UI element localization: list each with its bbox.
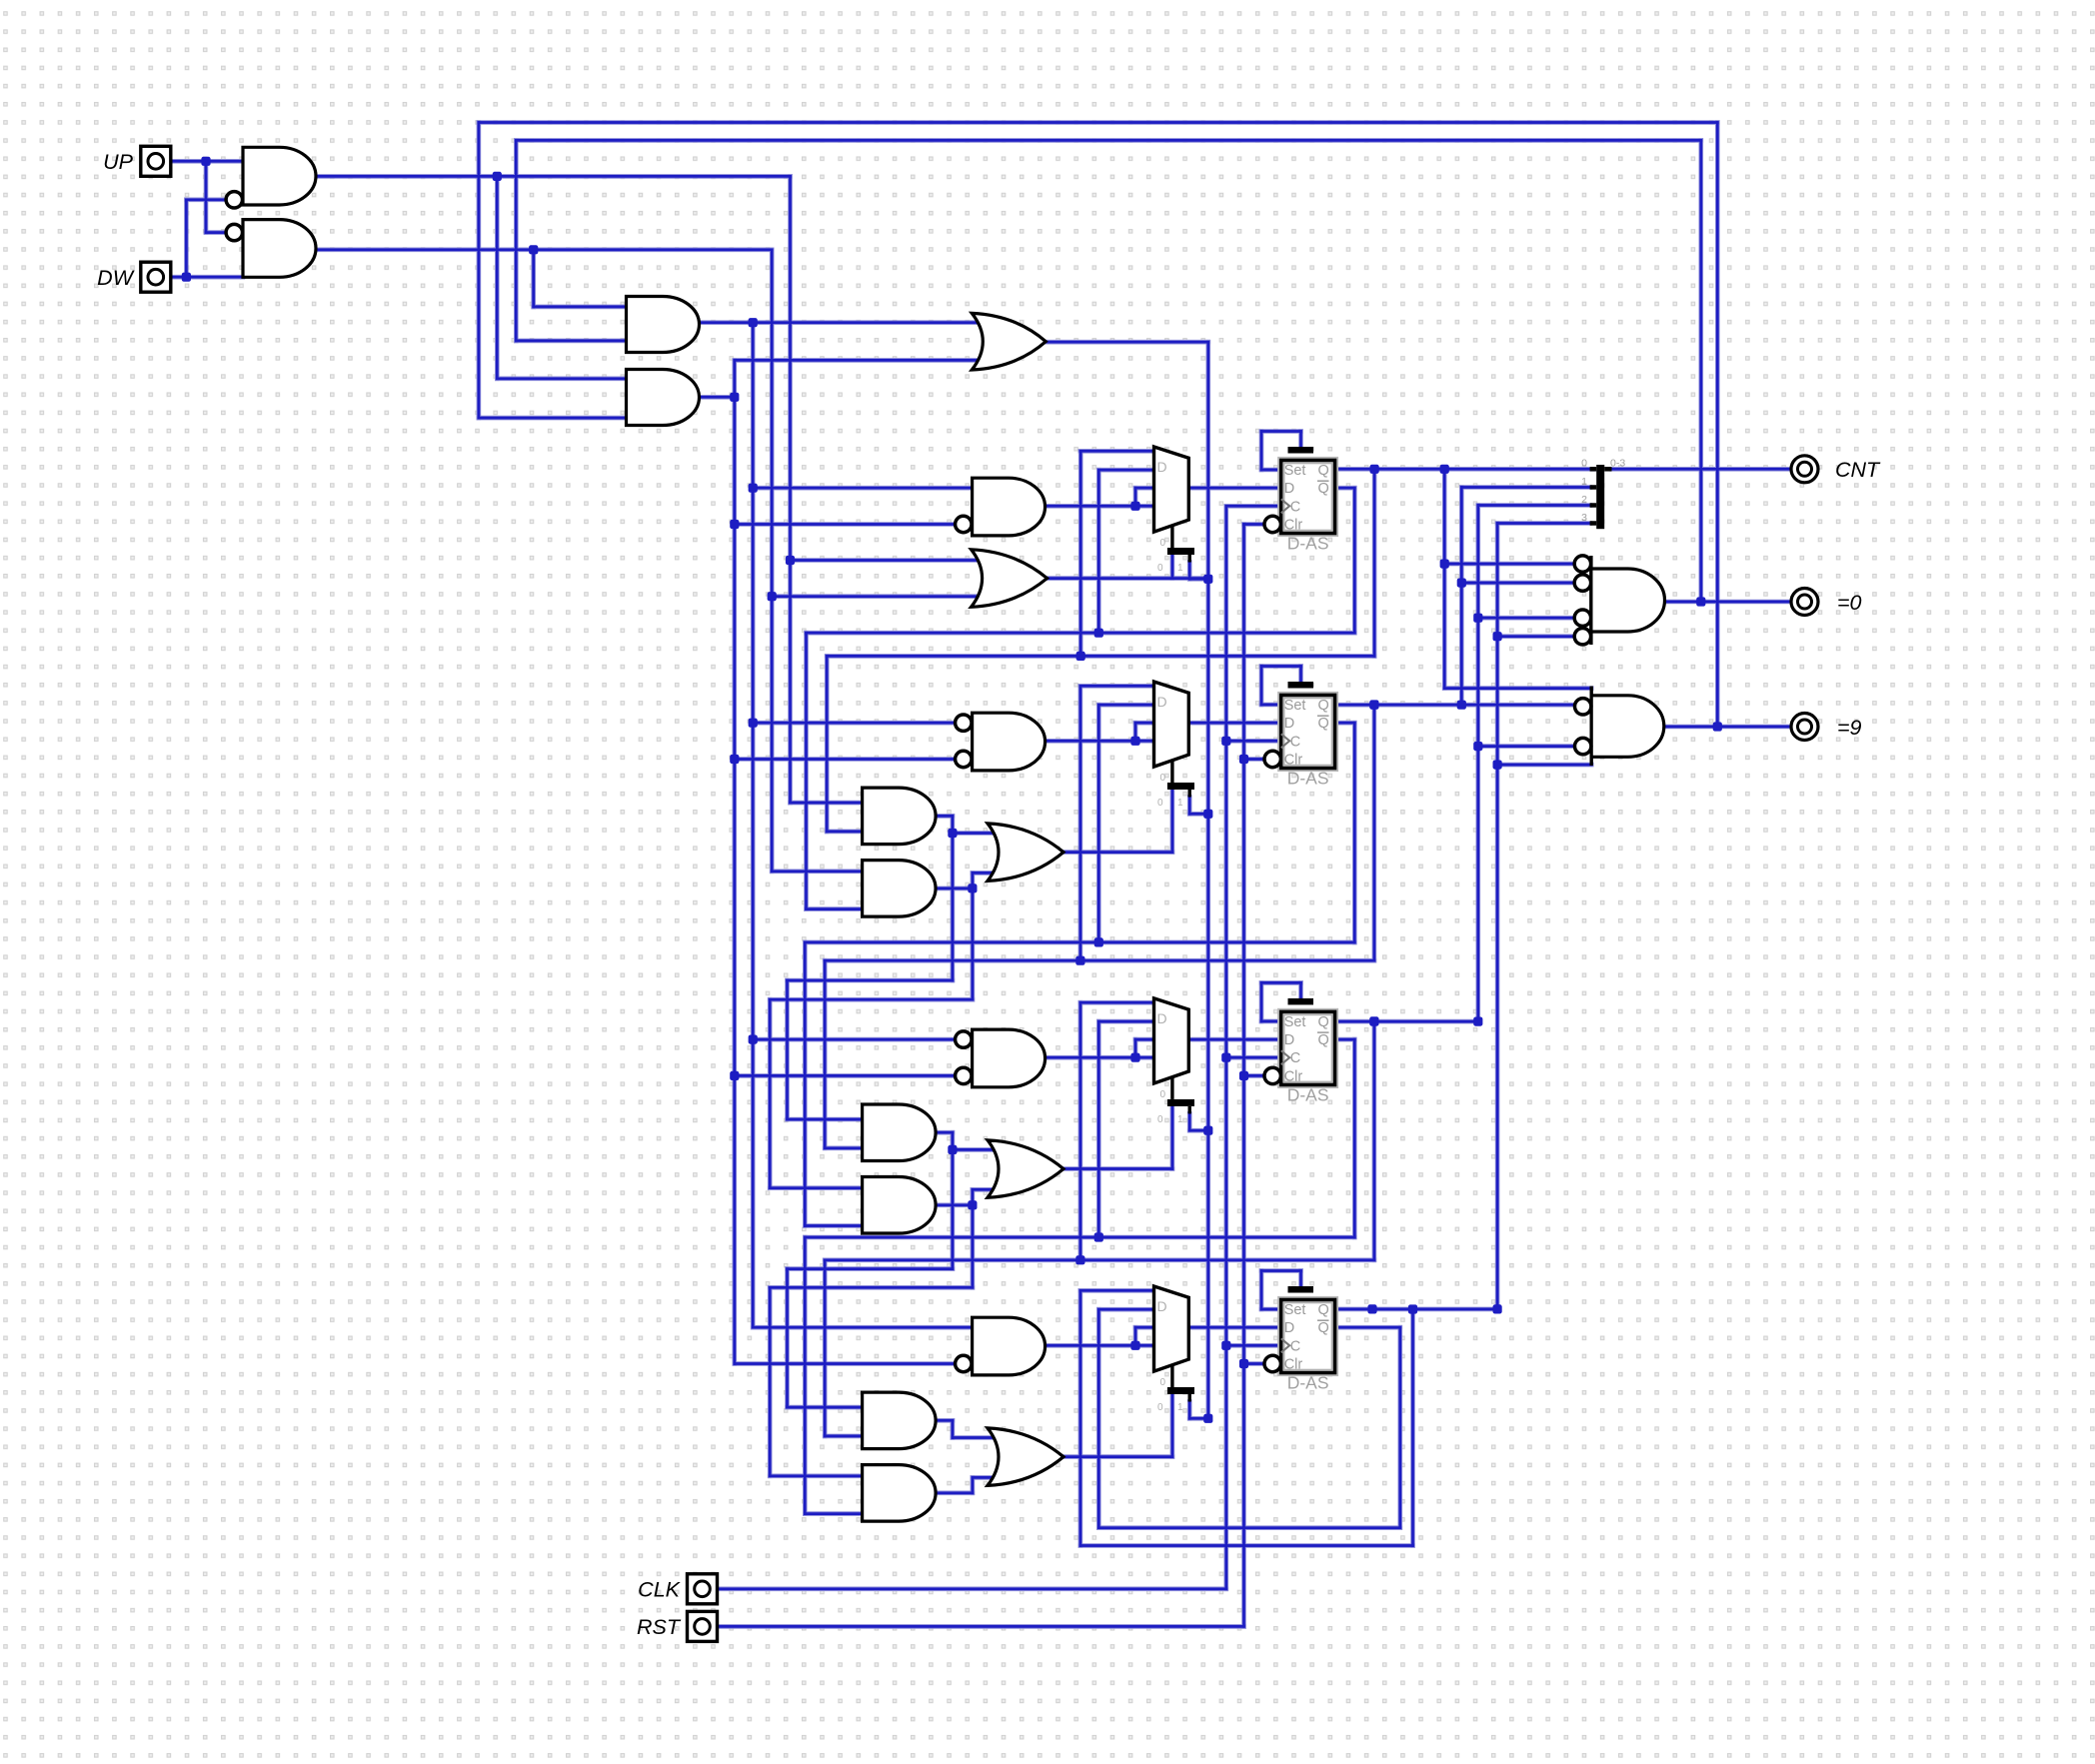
svg-text:Q: Q bbox=[1318, 481, 1329, 497]
svg-text:D-AS: D-AS bbox=[1287, 769, 1329, 789]
svg-text:Clr: Clr bbox=[1284, 1357, 1303, 1373]
svg-text:=9: =9 bbox=[1837, 716, 1862, 740]
svg-text:D: D bbox=[1157, 1010, 1167, 1026]
svg-text:Q: Q bbox=[1318, 1014, 1329, 1030]
svg-text:1: 1 bbox=[1177, 563, 1183, 574]
svg-text:1: 1 bbox=[1177, 798, 1183, 809]
svg-text:CNT: CNT bbox=[1835, 458, 1881, 482]
svg-text:D-AS: D-AS bbox=[1287, 534, 1329, 554]
svg-text:UP: UP bbox=[103, 150, 134, 174]
svg-text:Q: Q bbox=[1318, 1320, 1329, 1336]
svg-text:0: 0 bbox=[1157, 563, 1163, 574]
svg-text:Q: Q bbox=[1318, 1302, 1329, 1318]
svg-text:C: C bbox=[1290, 734, 1300, 750]
svg-text:Q: Q bbox=[1318, 698, 1329, 714]
svg-text:0: 0 bbox=[1160, 538, 1166, 549]
svg-text:CLK: CLK bbox=[638, 1578, 681, 1602]
svg-text:3: 3 bbox=[1581, 512, 1587, 524]
svg-text:D: D bbox=[1157, 694, 1167, 710]
svg-text:0-3: 0-3 bbox=[1610, 458, 1625, 470]
svg-text:RST: RST bbox=[637, 1615, 682, 1639]
svg-text:=0: =0 bbox=[1837, 591, 1862, 615]
svg-text:0: 0 bbox=[1581, 458, 1587, 470]
svg-text:Clr: Clr bbox=[1284, 1068, 1303, 1084]
svg-text:Q: Q bbox=[1318, 463, 1329, 479]
svg-text:1: 1 bbox=[1177, 1402, 1183, 1413]
svg-text:Clr: Clr bbox=[1284, 518, 1303, 534]
svg-text:0: 0 bbox=[1160, 1089, 1166, 1100]
svg-text:C: C bbox=[1290, 1050, 1300, 1066]
svg-text:1: 1 bbox=[1177, 1114, 1183, 1125]
svg-text:0: 0 bbox=[1157, 798, 1163, 809]
svg-text:0: 0 bbox=[1157, 1402, 1163, 1413]
svg-text:Set: Set bbox=[1284, 1014, 1306, 1030]
svg-text:D: D bbox=[1157, 1298, 1167, 1314]
svg-text:C: C bbox=[1290, 1338, 1300, 1354]
svg-text:D-AS: D-AS bbox=[1287, 1373, 1329, 1393]
svg-text:Set: Set bbox=[1284, 463, 1306, 479]
svg-text:D: D bbox=[1284, 481, 1294, 497]
svg-text:D: D bbox=[1284, 1320, 1294, 1336]
svg-text:DW: DW bbox=[97, 266, 135, 290]
svg-text:Q: Q bbox=[1318, 1032, 1329, 1048]
svg-text:D: D bbox=[1157, 459, 1167, 475]
svg-text:D-AS: D-AS bbox=[1287, 1084, 1329, 1104]
svg-text:0: 0 bbox=[1160, 1377, 1166, 1388]
svg-text:0: 0 bbox=[1157, 1114, 1163, 1125]
svg-text:2: 2 bbox=[1581, 494, 1587, 506]
svg-text:D: D bbox=[1284, 1032, 1294, 1048]
svg-text:Q: Q bbox=[1318, 716, 1329, 732]
svg-text:Clr: Clr bbox=[1284, 753, 1303, 769]
svg-text:Set: Set bbox=[1284, 1302, 1306, 1318]
svg-text:0: 0 bbox=[1160, 773, 1166, 784]
svg-text:1: 1 bbox=[1581, 476, 1587, 488]
svg-text:D: D bbox=[1284, 716, 1294, 732]
svg-text:C: C bbox=[1290, 499, 1300, 515]
svg-text:Set: Set bbox=[1284, 698, 1306, 714]
